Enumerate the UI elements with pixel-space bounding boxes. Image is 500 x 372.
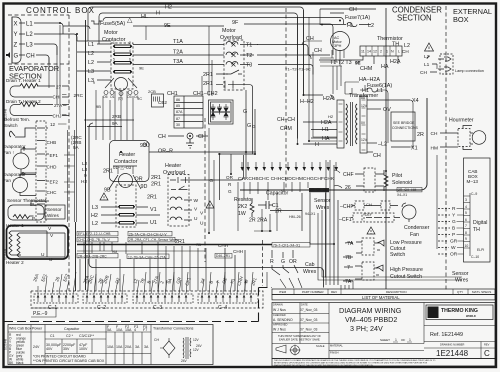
- heater contactor coil: [119, 174, 133, 188]
- left bus solid: [76, 20, 86, 291]
- lamp pins dashed box: [440, 54, 453, 74]
- wires under thermistor: [319, 56, 398, 64]
- svg-text:Motor: Motor: [104, 30, 118, 36]
- slanted wires to C1: [38, 272, 76, 294]
- svg-text:C1: C1: [50, 334, 55, 338]
- svg-text:W: W: [194, 198, 199, 204]
- CENTERRIGHT: [334, 165, 430, 285]
- svg-text:Z: Z: [14, 43, 18, 49]
- svg-text:14: 14: [367, 50, 371, 54]
- TABLES: [8, 325, 213, 366]
- svg-text:26: 26: [345, 185, 351, 191]
- svg-text:G: G: [228, 189, 232, 194]
- overload element T2: [133, 52, 254, 55]
- svg-text:CHC: CHC: [47, 190, 58, 195]
- wires to transformer left: [303, 95, 337, 144]
- thermistor terminal block: [360, 46, 402, 56]
- heater contactor box: [110, 141, 150, 182]
- svg-text:H2: H2: [81, 179, 87, 185]
- svg-text:VM–405 PBBD2: VM–405 PBBD2: [345, 315, 397, 324]
- svg-text:9B: 9B: [104, 188, 111, 194]
- slanted wires to C2: [87, 274, 124, 294]
- C-1 strip: [34, 294, 78, 303]
- svg-text:O2: O2: [221, 277, 228, 285]
- svg-text:EF1: EF1: [50, 153, 59, 158]
- svg-text:2R: 2R: [275, 209, 282, 215]
- svg-text:G: G: [452, 219, 456, 225]
- svg-text:2R1: 2R1: [203, 72, 213, 78]
- wire HL top: [103, 18, 344, 25]
- svg-text:L1: L1: [424, 62, 430, 68]
- motor overload dashed box: [224, 40, 244, 90]
- svg-text:Lamp connection: Lamp connection: [455, 69, 484, 73]
- stack labels L2 L3 9 H2: [81, 161, 88, 185]
- svg-text:OR: OR: [450, 252, 458, 258]
- svg-text:Drain T. Heater 1: Drain T. Heater 1: [6, 78, 41, 83]
- connector J1 control box: [12, 17, 21, 63]
- overload element T3: [133, 62, 250, 65]
- svg-text:V: V: [200, 211, 204, 217]
- svg-text:6: 6: [465, 218, 467, 222]
- svg-text:Evaporator: Evaporator: [3, 144, 26, 149]
- svg-text:SHEET: SHEET: [380, 338, 390, 342]
- svg-text:EF1–EF2–12–U–CHB: EF1–EF2–12–U–CHB: [78, 232, 111, 236]
- evap fan1 circle: [13, 153, 29, 169]
- svg-text:Y: Y: [452, 213, 456, 219]
- svg-text:9E: 9E: [139, 66, 144, 71]
- svg-text:Solenoid: Solenoid: [392, 180, 412, 186]
- warning triangle condenser: [425, 43, 434, 52]
- svg-text:2R1: 2R1: [103, 169, 113, 175]
- condenser section left edge: [385, 8, 387, 289]
- svg-text:9C: 9C: [137, 96, 142, 101]
- svg-text:Resistor: Resistor: [234, 197, 253, 203]
- hourmeter wires: [440, 126, 473, 150]
- wire CH1 junction lines: [218, 154, 255, 200]
- svg-text:Pilot: Pilot: [392, 173, 403, 179]
- dashed vertical cab: [262, 240, 264, 286]
- svg-text:Defrost Tem.: Defrost Tem.: [4, 117, 30, 122]
- svg-text:N: N: [391, 50, 394, 54]
- heater2 resistor box: [10, 105, 69, 116]
- svg-text:LIST OF MATERIAL: LIST OF MATERIAL: [362, 295, 400, 300]
- svg-text:HM–26: HM–26: [289, 215, 301, 219]
- svg-text:CHD: CHD: [47, 165, 58, 170]
- PE9 outer dashed strip: [31, 291, 263, 308]
- svg-text:black: black: [16, 361, 24, 365]
- wires T to right: [257, 45, 330, 75]
- svg-text:3PH: 3PH: [334, 44, 342, 48]
- mini transformer: [181, 337, 203, 363]
- svg-text:2: 2: [159, 280, 165, 285]
- svg-text:CH: CH: [431, 131, 438, 137]
- svg-text:FINISH: FINISH: [330, 351, 339, 355]
- svg-text:APPROVED: APPROVED: [273, 323, 288, 327]
- pilot solenoid coil: [384, 170, 388, 191]
- label digital TH: [473, 220, 487, 233]
- svg-text:HA: HA: [381, 64, 389, 70]
- CH strip labels: [238, 176, 335, 182]
- svg-text:SECTION: SECTION: [397, 14, 432, 23]
- svg-text:9: 9: [84, 173, 87, 179]
- svg-text:P: P: [452, 232, 455, 238]
- svg-text:L3: L3: [26, 43, 33, 49]
- digital TH dashed wires: [438, 209, 450, 255]
- svg-text:C: C: [484, 349, 490, 358]
- svg-text:PART NUMBER: PART NUMBER: [302, 290, 324, 294]
- svg-text:GR: GR: [175, 276, 182, 284]
- svg-text:CH: CH: [154, 338, 159, 342]
- svg-text:Fuse5(5A): Fuse5(5A): [100, 21, 125, 27]
- svg-text:Digital: Digital: [473, 220, 487, 226]
- svg-text:6: 6: [129, 58, 131, 62]
- svg-text:BOX: BOX: [453, 15, 469, 24]
- svg-text:2RB: 2RB: [112, 114, 121, 119]
- OV wire: [367, 108, 381, 110]
- svg-text:1: 1: [113, 41, 115, 45]
- HA-H2A riser: [345, 82, 359, 94]
- left table columns: [8, 325, 151, 365]
- transformer feeds: [298, 10, 304, 144]
- svg-text:Wires: Wires: [303, 269, 317, 275]
- speaker icon: [6, 52, 10, 58]
- thermo king logo box: [426, 305, 493, 320]
- wire 9F run: [244, 24, 333, 55]
- svg-text:10A: 10A: [107, 345, 114, 349]
- svg-text:Transformer Connections: Transformer Connections: [153, 327, 194, 331]
- svg-text:L2: L2: [424, 54, 430, 60]
- svg-text:3A: 3A: [135, 345, 140, 349]
- heater zigzag B: [17, 233, 20, 257]
- svg-text:V: V: [48, 226, 52, 232]
- C-3 strip: [133, 294, 193, 303]
- column pin marks: [37, 128, 45, 214]
- svg-text:7A: 7A: [347, 241, 354, 247]
- svg-text:12V: 12V: [193, 348, 200, 352]
- slanted wires to C4: [202, 272, 253, 294]
- fine print: [272, 359, 495, 367]
- svg-text:F7: F7: [143, 328, 147, 332]
- svg-text:*ON PRINTED CIRCUIT BOARD: *ON PRINTED CIRCUIT BOARD: [33, 355, 86, 359]
- evap fan2 circle: [13, 178, 28, 193]
- svg-text:C–3: C–3: [153, 305, 162, 311]
- svg-text:20A: 20A: [125, 345, 132, 349]
- LOM title bar: [272, 295, 495, 300]
- evaporator section boundary: [8, 63, 69, 65]
- svg-text:12: 12: [132, 278, 139, 285]
- svg-text:HM: HM: [431, 146, 438, 152]
- resistor 2K2 symbol: [250, 199, 254, 217]
- svg-text:5: 5: [465, 211, 467, 215]
- HP switch symbol: [376, 265, 383, 275]
- svg-text:X: X: [14, 22, 18, 28]
- condenser/external divider: [445, 6, 447, 290]
- svg-text:Sensor: Sensor: [47, 207, 62, 212]
- svg-text:W: W: [243, 278, 249, 284]
- verticals center to strips: [209, 128, 308, 233]
- svg-text:9B: 9B: [96, 104, 101, 109]
- svg-text:4: 4: [129, 49, 131, 53]
- svg-text:(D): (D): [118, 97, 123, 101]
- RIGHTCOL: [431, 118, 491, 284]
- center divider dashed x286: [285, 8, 287, 190]
- svg-text:2K2: 2K2: [238, 204, 247, 210]
- left info column: [272, 302, 329, 344]
- svg-text:R: R: [228, 182, 232, 187]
- lamp connector pins: [438, 57, 451, 71]
- contactor contacts: [114, 45, 131, 73]
- wire H top: [99, 13, 298, 139]
- svg-text:9F: 9F: [232, 20, 239, 26]
- svg-text:DRAWN: DRAWN: [273, 303, 283, 307]
- svg-text:B: B: [146, 280, 152, 285]
- CHF bracket: [334, 170, 342, 188]
- svg-text:CHKCHBCHC CHHCHDCHMCHGCHFCHK: CHKCHBCHC CHHCHDCHMCHGCHFCHK: [238, 176, 335, 182]
- svg-text:3: 3: [113, 49, 115, 53]
- dash separator line: [4, 288, 272, 322]
- svg-text:2: 2: [380, 50, 382, 54]
- svg-text:5: 5: [113, 58, 115, 62]
- svg-text:SEE BRIDGE: SEE BRIDGE: [393, 121, 415, 125]
- svg-text:H2A: H2A: [323, 96, 334, 102]
- svg-text:W J Nus: W J Nus: [273, 308, 286, 312]
- svg-text:CHB: CHB: [47, 140, 57, 145]
- CH junction with ground: [168, 135, 208, 137]
- TRANSFORMER: [240, 60, 427, 190]
- transformer right terminal strip: [360, 96, 367, 153]
- transformer core: [351, 102, 353, 146]
- svg-text:U1: U1: [150, 220, 157, 226]
- wire 2R1 a: [216, 74, 240, 89]
- svg-text:QTY: QTY: [457, 290, 463, 294]
- bridge diodes: [211, 104, 231, 120]
- cab wire runs: [272, 250, 298, 275]
- svg-text:C2 *: C2 *: [66, 334, 74, 338]
- svg-text:2R: 2R: [417, 132, 424, 138]
- svg-text:1: 1: [395, 338, 397, 342]
- svg-text:C–10: C–10: [471, 255, 479, 259]
- svg-text:Sensor: Sensor: [452, 271, 469, 277]
- svg-text:G: G: [210, 178, 214, 184]
- svg-text:THIS PRINT SUPERSEDES ANY: THIS PRINT SUPERSEDES ANY OF: [278, 334, 321, 338]
- digital TH connector column: [469, 193, 471, 256]
- overload 2R1 contact row: [170, 155, 244, 183]
- transformer secondary winding: [356, 104, 357, 144]
- svg-text:Ref. 1E21449: Ref. 1E21449: [430, 332, 463, 338]
- svg-text:T3: T3: [246, 63, 252, 69]
- condenser fan circle: [402, 205, 416, 219]
- resistor zigzag DH1: [20, 84, 38, 89]
- svg-text:Switch: Switch: [390, 252, 405, 258]
- hourmeter circle: [472, 131, 486, 145]
- drawing number row: [424, 342, 495, 359]
- svg-text:L2: L2: [26, 32, 33, 38]
- condenser fan terminals dashed: [353, 201, 394, 222]
- svg-text:87: 87: [176, 117, 180, 121]
- svg-text:WORLD: WORLD: [466, 314, 476, 318]
- svg-text:CH–CH: CH–CH: [277, 117, 295, 123]
- LP switch dashed: [362, 238, 374, 255]
- svg-text:CHM: CHM: [360, 66, 373, 72]
- connectors from labels to bundle: [58, 95, 75, 193]
- condenser CH riser: [302, 9, 322, 45]
- svg-text:CH: CH: [366, 202, 372, 207]
- svg-text:2R1: 2R1: [203, 81, 213, 87]
- svg-text:X1: X1: [411, 146, 418, 152]
- svg-text:Cab: Cab: [305, 262, 315, 268]
- heater inner wiring: [11, 231, 47, 257]
- svg-text:OR: OR: [226, 175, 234, 180]
- svg-text:12V: 12V: [361, 138, 368, 142]
- wire chips row1: [78, 232, 300, 259]
- svg-text:2CB: 2CB: [148, 89, 156, 94]
- svg-text:OR: OR: [289, 259, 297, 265]
- svg-text:Motor: Motor: [222, 28, 236, 34]
- svg-text:2RB: 2RB: [102, 275, 110, 285]
- bracket wires 7x: [343, 243, 353, 281]
- LOM header row: [272, 289, 495, 295]
- svg-text:H2A: H2A: [321, 120, 332, 126]
- svg-text:C–9: C–9: [471, 192, 477, 196]
- svg-text:P.E.–9: P.E.–9: [33, 311, 48, 317]
- svg-text:1E21448: 1E21448: [4, 338, 8, 350]
- svg-text:CH: CH: [402, 49, 409, 54]
- svg-text:12V: 12V: [193, 338, 200, 342]
- svg-text:Capacitor: Capacitor: [64, 327, 80, 331]
- wire HM: [77, 250, 205, 252]
- T1T2T3 drop: [333, 66, 341, 94]
- svg-text:Power: Power: [32, 327, 43, 331]
- svg-text:2RC: 2RC: [74, 93, 84, 99]
- CAB BOX tall box: [464, 158, 491, 262]
- CH terminal strip pins: [241, 162, 339, 171]
- C-4 strip: [198, 294, 258, 303]
- wire bus continuation: [310, 243, 334, 245]
- CH wire from motor down: [309, 17, 337, 141]
- svg-text:15A: 15A: [125, 328, 132, 332]
- svg-text:L3: L3: [82, 167, 88, 173]
- svg-text:CHH: CHH: [233, 249, 243, 254]
- svg-text:X4: X4: [199, 277, 206, 284]
- svg-text:ITEM: ITEM: [279, 290, 287, 294]
- wire 2R1 to G area: [240, 85, 255, 155]
- svg-text:35V: 35V: [63, 347, 70, 351]
- margin text left: [4, 108, 8, 350]
- LEFTCOL: [3, 17, 88, 291]
- svg-text:O5: O5: [103, 95, 108, 99]
- heater1 resistor box: [10, 86, 69, 97]
- hourmeter terminal dashed: [458, 129, 470, 147]
- wire CH top: [320, 9, 376, 13]
- svg-text:2: 2: [129, 41, 131, 45]
- svg-text:5A: 5A: [107, 328, 112, 332]
- svg-text:85: 85: [176, 104, 180, 108]
- svg-text:11: 11: [361, 50, 365, 54]
- lamp CH wire: [436, 64, 438, 69]
- svg-text:CHC–CHD–7B–7A–V: CHC–CHD–7B–7A–V: [78, 238, 111, 242]
- fuse6 symbol: [367, 88, 377, 92]
- svg-text:L1: L1: [26, 22, 33, 28]
- wires L2 L1 CH lamp: [427, 56, 437, 72]
- svg-text:2R–CH–HM: 2R–CH–HM: [398, 188, 416, 192]
- svg-text:CH: CH: [158, 134, 166, 140]
- transformer primary winding: [346, 104, 347, 144]
- svg-text:H: H: [315, 142, 319, 148]
- bottom center risers: [341, 281, 353, 289]
- svg-text:H2: H2: [91, 213, 98, 219]
- svg-text:T1–T2–T3–9C: T1–T2–T3–9C: [285, 67, 311, 72]
- heater zigzag A: [9, 231, 12, 255]
- svg-text:9A: 9A: [73, 145, 80, 150]
- svg-text:2R1: 2R1: [147, 195, 157, 201]
- TOPCENTER: [63, 5, 344, 201]
- wire 9E run: [133, 25, 224, 27]
- fuse F5: [91, 21, 102, 24]
- svg-text:CHI: CHI: [53, 95, 61, 100]
- svg-text:1: 1: [409, 338, 411, 342]
- center divider dashed x205: [204, 118, 206, 262]
- heater box thick: [7, 226, 69, 260]
- svg-text:Heater 2: Heater 2: [6, 260, 24, 265]
- svg-text:9: 9: [465, 237, 467, 241]
- svg-text:THERMO KING: THERMO KING: [441, 308, 478, 314]
- svg-text:2R–2RA–CF1–CH–Sensor Wires: 2R–2RA–CF1–CH–Sensor Wires: [129, 238, 178, 242]
- svg-text:40V: 40V: [46, 347, 53, 351]
- wire OR-R run: [149, 151, 256, 153]
- svg-text:CH: CH: [349, 7, 357, 13]
- wire 2RB: [87, 120, 134, 127]
- sensor wires label center: [314, 198, 331, 211]
- svg-text:CH: CH: [420, 70, 427, 76]
- svg-text:26A: 26A: [32, 273, 39, 282]
- SECTIONS: [8, 6, 446, 291]
- evap fan1 arrow: [23, 147, 26, 151]
- OL elements W V U: [170, 197, 192, 220]
- svg-text:12V: 12V: [361, 104, 368, 108]
- sensor heater zigzag: [13, 215, 34, 219]
- svg-text:B: B: [452, 226, 455, 232]
- svg-text:CF1: CF1: [184, 276, 192, 286]
- CH wire: [367, 151, 373, 153]
- svg-text:G: G: [252, 124, 256, 129]
- svg-text:0V: 0V: [361, 121, 366, 125]
- svg-text:CH: CH: [26, 54, 35, 60]
- svg-text:T2: T2: [246, 53, 252, 59]
- svg-text:W: W: [451, 245, 456, 251]
- capacitor C1: [258, 201, 273, 209]
- svg-text:100V: 100V: [79, 347, 88, 351]
- CONDENSERTOP: [306, 7, 484, 76]
- svg-text:TK: TK: [429, 311, 438, 317]
- svg-text:87A: 87A: [176, 110, 183, 114]
- title block outer: [272, 303, 495, 359]
- svg-text:07_Nov_03: 07_Nov_03: [300, 308, 317, 312]
- svg-text:CH: CH: [314, 48, 322, 54]
- overload N row: [171, 186, 188, 190]
- svg-text:Switch: Switch: [4, 123, 18, 128]
- svg-text:Sensor: Sensor: [314, 198, 331, 204]
- svg-text:EF2: EF2: [50, 180, 59, 185]
- TEXT TITLES: [9, 6, 492, 81]
- svg-text:HL: HL: [141, 14, 148, 20]
- svg-text:A. SENDINO: A. SENDINO: [273, 318, 293, 322]
- wire H2 top: [88, 7, 304, 96]
- fuse6 wire: [360, 85, 388, 143]
- svg-text:Wire Cab Box: Wire Cab Box: [9, 327, 31, 331]
- svg-text:M–13: M–13: [467, 179, 479, 184]
- heater overload label: [163, 163, 185, 176]
- motor contactor K1 dashed box: [111, 43, 133, 89]
